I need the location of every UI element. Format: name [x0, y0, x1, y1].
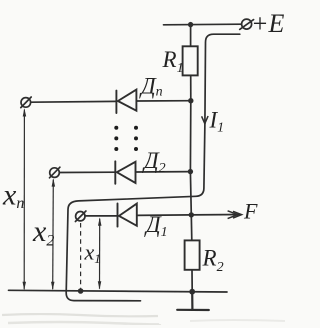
terminal xn slash	[21, 97, 31, 108]
arrow F head	[228, 211, 242, 219]
wire bus: D2 junction to F junction	[189, 172, 192, 215]
ground rail	[9, 290, 228, 292]
wire dimension x2	[52, 180, 55, 290]
diode Dn cathode bar	[115, 91, 117, 113]
wire bus: R2 to ground rail	[191, 270, 193, 292]
arrow I1 head	[202, 116, 209, 124]
svg-text:F: F	[243, 199, 258, 224]
resistor R1	[183, 46, 198, 75]
wire top rail to +E	[164, 23, 242, 26]
wire dashed x1 reference	[80, 223, 82, 291]
diode D1 triangle	[119, 204, 137, 226]
wire from +E down (I1 branch with rounded corner)	[205, 34, 240, 123]
wire D1 to bus	[137, 214, 192, 217]
node top junction	[188, 22, 193, 27]
wire output F with arrow	[191, 214, 240, 216]
terminal x1 slash	[75, 211, 86, 222]
resistor R2	[185, 240, 200, 269]
wire D1 input	[85, 215, 118, 217]
terminal +E	[242, 19, 252, 29]
wire bus: top junction to R1	[190, 25, 192, 47]
wire Dn input	[31, 100, 117, 103]
terminal input xn	[21, 98, 31, 108]
node D2 junction	[188, 169, 193, 174]
terminal input x1	[76, 212, 85, 221]
wire bus: F junction to R2	[190, 215, 193, 241]
wire I1 branch lower segment to left turn	[66, 124, 205, 301]
wire D2 to bus	[136, 171, 191, 173]
node dashed line rail junction	[78, 288, 84, 294]
wire dimension xn	[23, 110, 25, 290]
node ground rail junction	[189, 289, 195, 295]
wire D2 input	[60, 171, 116, 173]
diode Dn triangle	[118, 90, 136, 111]
terminal input x2	[50, 168, 60, 178]
wire bus: Dn junction to D2 junction	[189, 101, 191, 172]
diode D1 cathode bar	[117, 204, 119, 227]
dimension arrowheads	[23, 108, 102, 290]
ground	[177, 292, 209, 310]
svg-text:+E: +E	[251, 9, 285, 38]
wire bus: R1 to Dn junction	[190, 75, 192, 100]
terminal +E slash	[240, 20, 254, 30]
diode D2 cathode bar	[114, 161, 116, 184]
node Dn junction	[188, 98, 193, 103]
diode D2 triangle	[117, 162, 136, 183]
terminal x2 slash	[50, 167, 60, 178]
node F junction	[189, 212, 194, 217]
wire dimension x1	[99, 219, 101, 289]
node ellipsis dots between Dn and D2	[114, 126, 138, 151]
wire Dn to bus	[136, 100, 190, 102]
